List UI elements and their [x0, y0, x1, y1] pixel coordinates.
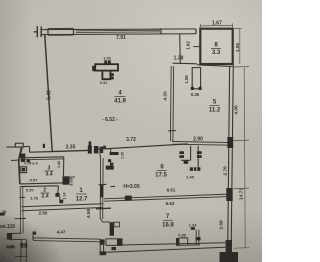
svg-text:кв.116: кв.116: [0, 224, 15, 230]
junction jamb blobs room4/room1: [88, 141, 103, 153]
svg-text:16.8: 16.8: [162, 223, 174, 229]
wall room5 left vertical double: [168, 66, 176, 141]
svg-text:3.05: 3.05: [69, 177, 74, 186]
svg-text:3.4: 3.4: [45, 172, 52, 178]
jamb room3 bottom right: [63, 176, 70, 184]
svg-text:- 6.52 -: - 6.52 -: [102, 117, 118, 123]
wall end cap left hatch: [34, 26, 41, 37]
svg-text:1.03: 1.03: [103, 57, 110, 61]
room 2 box: [57, 186, 60, 193]
wall room6 top: [99, 144, 188, 149]
svg-text:0.48: 0.48: [7, 245, 14, 249]
svg-text:3.3: 3.3: [212, 50, 221, 56]
dim line 1.95 right of room8: [233, 28, 242, 64]
svg-text:1.42: 1.42: [57, 161, 61, 168]
wall room1/room6 vertical with door jambs: [99, 158, 114, 219]
svg-text:1.45: 1.45: [186, 176, 193, 180]
svg-text:4.00: 4.00: [234, 105, 240, 115]
svg-text:12.7: 12.7: [76, 197, 88, 203]
wall corridor bottom band 4.47: [33, 235, 101, 242]
dim line 1.67 above room8: [200, 23, 232, 28]
svg-text:11.2: 11.2: [209, 108, 221, 114]
wall left exterior: [45, 34, 53, 151]
jamb on 6/7 wall left: [125, 196, 132, 201]
svg-text:2.90: 2.90: [193, 137, 203, 143]
wall room1 bottom band 2.50: [22, 204, 104, 211]
vent shaft block rooms5/6: [179, 146, 201, 171]
wall room7 bottom band: [100, 239, 230, 252]
wall top exterior band with windows: [41, 28, 197, 35]
tick dim 2.35 left: [43, 144, 45, 148]
svg-text:7.91: 7.91: [116, 35, 126, 41]
svg-text:0.74 в 9: 0.74 в 9: [24, 162, 37, 166]
svg-text:0.57: 0.57: [30, 178, 39, 183]
wall room8 bottom / room5 top: [197, 65, 233, 67]
svg-text:1.38: 1.38: [174, 56, 184, 62]
svg-text:6.61: 6.61: [167, 188, 176, 193]
wall niche bottom 1.38: [173, 62, 197, 65]
svg-text:0.31: 0.31: [100, 81, 107, 85]
wall right exterior double: [228, 65, 234, 262]
svg-text:6.63: 6.63: [166, 201, 175, 206]
wall room4 bottom left segment: [51, 150, 88, 151]
svg-text:2.79: 2.79: [223, 166, 229, 176]
dim line right 14.71: [234, 67, 250, 249]
room 3 box: [18, 157, 63, 187]
rotated labels: [46, 41, 244, 230]
svg-text:17.5: 17.5: [155, 173, 167, 179]
svg-text:4.50: 4.50: [86, 209, 92, 219]
svg-text:2.4: 2.4: [41, 194, 48, 200]
tick 1.62: [193, 46, 200, 48]
wall corridor left vertical: [20, 187, 23, 233]
fixtures room7 bathroom: [176, 227, 201, 245]
vent box room3 left: [20, 167, 26, 173]
right wall black segments: [220, 137, 239, 262]
duct room5 top: [191, 68, 202, 90]
svg-text:1.14: 1.14: [63, 193, 67, 200]
wall niche vertical room4 right: [179, 34, 182, 63]
svg-text:1.35: 1.35: [121, 152, 125, 159]
svg-text:0.98: 0.98: [178, 233, 185, 237]
door jambs below entrance: [20, 243, 27, 248]
svg-text:4.47: 4.47: [57, 230, 66, 235]
wall below entrance left double: [15, 240, 28, 262]
svg-text:0.36: 0.36: [191, 92, 200, 97]
svg-text:1.67: 1.67: [212, 21, 222, 27]
svg-text:3.72: 3.72: [126, 137, 136, 143]
wall rooms6/7 band 6.61: [104, 194, 232, 201]
wall room5 bottom band 2.90: [172, 142, 232, 146]
room7 left wall jamb: [100, 219, 119, 236]
svg-text:1.62: 1.62: [186, 41, 191, 50]
svg-text:2.50: 2.50: [39, 211, 48, 216]
underlines for room labels: [41, 49, 222, 221]
steps near room6 top-left: [100, 149, 111, 159]
svg-text:1.34: 1.34: [189, 223, 197, 227]
svg-text:H=3.05: H=3.05: [123, 184, 139, 190]
tick room1 bottom right: [96, 207, 111, 210]
svg-text:1.78: 1.78: [30, 196, 39, 201]
svg-text:0.57: 0.57: [26, 188, 35, 193]
svg-text:2.35: 2.35: [66, 145, 76, 151]
svg-text:4.33: 4.33: [163, 91, 169, 101]
svg-text:1.95: 1.95: [235, 43, 240, 52]
svg-text:41.9: 41.9: [114, 99, 126, 105]
stairwell junction left: [7, 143, 30, 158]
svg-text:6.49: 6.49: [46, 90, 52, 100]
tick room2 left wall: [20, 196, 26, 198]
entrance door stub left and jamb: [7, 233, 26, 240]
svg-text:2.69: 2.69: [219, 220, 225, 230]
room 8 box: [200, 29, 232, 64]
svg-text:1.08: 1.08: [184, 75, 189, 84]
door box room7 bottom-left: [100, 239, 122, 255]
svg-text:14.71: 14.71: [239, 188, 245, 200]
wall stairwell extension left of room4: [30, 151, 52, 154]
T column room4: [92, 60, 118, 79]
